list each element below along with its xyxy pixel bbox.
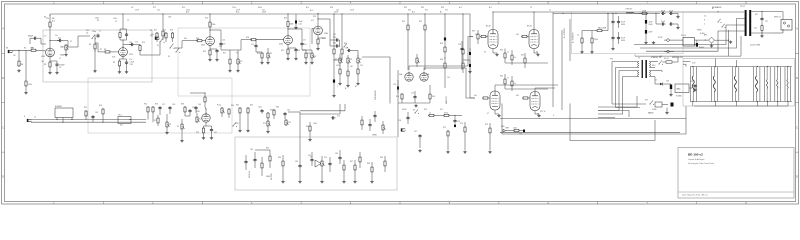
resistor R52 NFB <box>513 130 514 132</box>
switch SW11 impedance a <box>717 21 720 24</box>
svg-text:R74: R74 <box>485 124 488 126</box>
fuse F1 <box>666 61 672 63</box>
potentiometer P10 <box>196 116 198 117</box>
rectifier bridge diamond <box>709 37 715 43</box>
ground C32 <box>645 41 647 42</box>
wire OT bottom run <box>635 55 741 57</box>
ground R51 <box>591 51 593 52</box>
wire sw cluster <box>148 54 160 56</box>
ground C20 <box>333 94 335 95</box>
svg-text:22n: 22n <box>223 44 226 46</box>
resistor R77 led feed <box>162 30 164 31</box>
svg-text:R75 1k: R75 1k <box>540 111 546 113</box>
ground C34 <box>694 89 696 90</box>
svg-text:C9: C9 <box>127 20 129 22</box>
ground C47 <box>419 149 421 150</box>
svg-text:R69: R69 <box>380 157 383 159</box>
resistor R71 220k <box>443 114 444 116</box>
svg-text:RETURN: RETURN <box>271 173 273 180</box>
switch SW10 <box>414 112 417 115</box>
svg-text:47k: 47k <box>311 20 314 22</box>
ground R67 <box>354 180 356 181</box>
ground P13 <box>321 180 323 181</box>
wire V1A plate up <box>49 41 51 47</box>
ground C15 <box>295 26 297 27</box>
capacitor C17 coupling <box>301 42 303 44</box>
resistor R72 <box>447 130 449 131</box>
svg-text:5k6: 5k6 <box>474 95 477 97</box>
cathode V3A <box>317 35 319 38</box>
relay RL1 box <box>118 117 131 124</box>
ground C10 <box>126 71 128 72</box>
heater feed wires <box>714 59 716 67</box>
capacitor C33b string <box>669 12 671 14</box>
svg-text:R15: R15 <box>182 7 185 9</box>
ground gain cluster <box>94 70 96 71</box>
triode V2A <box>206 37 215 46</box>
svg-text:680pF: 680pF <box>28 36 34 38</box>
svg-text:22uF: 22uF <box>350 9 354 11</box>
triode V1A <box>46 48 55 57</box>
capacitor C19 <box>454 119 456 121</box>
loop send jack J3 <box>27 119 29 122</box>
wire c13 down <box>220 47 222 51</box>
svg-text:SW: SW <box>344 43 347 45</box>
svg-text:47k: 47k <box>445 9 448 11</box>
svg-text:R18: R18 <box>246 37 249 39</box>
wire V2A plate up <box>209 30 211 35</box>
ground bridge <box>711 43 713 44</box>
wire NFB <box>506 130 513 132</box>
ground PI <box>415 104 417 105</box>
svg-text:47k: 47k <box>46 18 49 20</box>
node grid V1A <box>18 50 19 51</box>
svg-text:10k: 10k <box>262 9 265 11</box>
svg-text:R8: R8 <box>113 62 115 64</box>
svg-text:R22: R22 <box>307 53 310 55</box>
wire OT secondary bottom <box>751 32 770 34</box>
svg-text:47uF: 47uF <box>661 21 665 23</box>
capacitor C31a filter <box>612 36 614 38</box>
svg-text:V7: V7 <box>487 113 489 115</box>
svg-text:V8: V8 <box>537 114 539 116</box>
svg-text:10k: 10k <box>447 77 450 79</box>
svg-text:B+3: B+3 <box>236 12 239 14</box>
svg-text:R73: R73 <box>460 123 463 125</box>
svg-text:R62: R62 <box>250 105 253 107</box>
triode V4B PI <box>420 73 428 81</box>
wire loop box <box>56 118 58 120</box>
wire V3A plate <box>317 19 319 25</box>
heater bottom stubs <box>714 102 716 107</box>
svg-text:J3: J3 <box>34 117 36 119</box>
heater V8 <box>753 67 755 102</box>
ground V8 cathode <box>538 114 540 115</box>
svg-text:R7: R7 <box>104 49 106 51</box>
ground R66 <box>282 180 284 181</box>
svg-text:CH3 4H: CH3 4H <box>626 9 633 11</box>
resistor R33 PI tail <box>401 93 403 94</box>
capacitor C10 1.5uF <box>126 61 128 63</box>
resistor R76 chain2 <box>462 62 464 63</box>
svg-text:47uF: 47uF <box>649 32 653 34</box>
ground V6 cathode <box>537 53 539 54</box>
switch SW7 HT <box>658 63 661 66</box>
resistor R42 <box>524 57 526 58</box>
ground C44 <box>299 180 301 181</box>
svg-text:P3: P3 <box>270 53 272 55</box>
capacitor C31b filter <box>618 36 620 38</box>
grid network V3B <box>221 107 223 108</box>
svg-text:R35: R35 <box>440 43 443 45</box>
svg-text:Date: May 5th, 2014 - BE 1.0: Date: May 5th, 2014 - BE 1.0 <box>682 193 709 196</box>
svg-text:J2: J2 <box>779 17 781 19</box>
svg-text:1k: 1k <box>514 83 516 85</box>
svg-text:P11: P11 <box>263 123 266 125</box>
svg-text:R72: R72 <box>443 127 446 129</box>
svg-text:R66: R66 <box>278 157 281 159</box>
resistor R10 tail <box>139 45 141 46</box>
ground C49 <box>469 70 471 71</box>
svg-text:R71: R71 <box>440 109 443 111</box>
wire to V1B grid <box>97 43 99 52</box>
NFB arrow <box>503 129 506 132</box>
long wire x562 <box>561 30 563 110</box>
svg-text:1k: 1k <box>514 57 516 59</box>
ground mains <box>666 111 668 112</box>
svg-text:R21: R21 <box>281 50 284 52</box>
svg-text:R77: R77 <box>153 7 156 9</box>
svg-text:B+2: B+2 <box>459 7 462 9</box>
capacitor C34a string <box>661 23 663 25</box>
ground P8 <box>166 131 168 132</box>
svg-text:RL1: RL1 <box>119 115 122 117</box>
capacitor C14 <box>255 44 257 46</box>
capacitor C27 zobel <box>761 17 763 19</box>
resistor R29 tone <box>347 70 349 71</box>
svg-text:C39: C39 <box>192 107 195 109</box>
svg-text:100k: 100k <box>113 18 117 20</box>
wire ch-switch feed <box>162 14 164 30</box>
triode V1B <box>119 48 128 57</box>
svg-text:C16: C16 <box>297 50 300 52</box>
bus wire W1 <box>300 110 345 112</box>
ground V2B cathode <box>287 57 289 58</box>
wire OT feed 2 <box>640 19 745 49</box>
ground P2 <box>237 69 239 70</box>
bus wire rails mid <box>500 117 686 119</box>
resistor R73 <box>464 126 466 127</box>
svg-text:R34: R34 <box>432 96 435 98</box>
electrolytic C15 <box>295 21 297 24</box>
ground C34 string <box>677 26 679 27</box>
ground V7 cathode <box>498 114 500 115</box>
svg-text:BR1: BR1 <box>704 34 707 36</box>
potentiometer P15 PI bias <box>416 57 418 58</box>
bias network wires <box>654 77 656 85</box>
wire bright to grid <box>94 35 96 44</box>
svg-text:C12: C12 <box>219 46 222 48</box>
wire R7 to V1B <box>111 51 119 53</box>
resistor R74 <box>489 127 491 128</box>
resistor R60 <box>228 108 230 109</box>
svg-text:B+1: B+1 <box>412 12 415 14</box>
svg-text:C21: C21 <box>333 37 336 39</box>
potentiometer P11 <box>267 120 269 121</box>
svg-text:R55: R55 <box>144 103 147 105</box>
capacitor C26 <box>461 47 463 49</box>
diode D1 bias <box>660 83 663 86</box>
triode V4A PI <box>405 73 413 81</box>
wire T1 secondary leads <box>649 61 658 63</box>
svg-text:V5: V5 <box>484 52 486 54</box>
svg-text:100k: 100k <box>290 24 294 26</box>
ground mid relay row <box>653 41 655 42</box>
ground R50 <box>581 51 583 52</box>
svg-text:R26: R26 <box>330 7 333 9</box>
node V2A out <box>209 29 210 30</box>
triode V2B <box>284 36 293 45</box>
resistor R7 grid stopper V1B <box>104 51 105 53</box>
resistor R2 68k grid stopper <box>30 49 31 51</box>
wire sec2 <box>658 70 662 72</box>
svg-text:C11: C11 <box>135 42 138 44</box>
wire grid V2B <box>257 39 284 41</box>
stage box channel switch <box>178 28 310 96</box>
svg-text:R4: R4 <box>44 17 46 19</box>
bus wire B2 <box>570 104 655 141</box>
svg-text:R57: R57 <box>154 120 157 122</box>
svg-text:SW: SW <box>86 30 89 32</box>
svg-text:R63: R63 <box>276 107 279 109</box>
wire mv <box>444 75 446 88</box>
wire psu corner d <box>598 84 623 114</box>
resistor R61 <box>239 107 241 108</box>
bus wire W2 <box>300 113 340 115</box>
svg-text:R19: R19 <box>257 53 260 55</box>
wire plate to coupling <box>50 40 58 42</box>
svg-text:SW10: SW10 <box>402 109 407 111</box>
svg-text:P7: P7 <box>360 59 362 61</box>
resistor R35 NFB <box>444 46 446 47</box>
svg-text:R32: R32 <box>421 7 424 9</box>
svg-text:T1: T1 <box>634 55 636 57</box>
svg-text:C44: C44 <box>295 161 298 163</box>
potentiometer P7 mid <box>357 57 359 58</box>
svg-text:C26: C26 <box>458 44 461 46</box>
ground P4 <box>311 61 313 62</box>
svg-text:P10: P10 <box>199 119 202 121</box>
cathode V1B wires <box>122 55 124 59</box>
svg-text:68k: 68k <box>31 47 34 49</box>
svg-text:R36: R36 <box>440 59 443 61</box>
svg-text:R11: R11 <box>154 30 157 32</box>
capacitor C34 bias <box>694 84 696 86</box>
pilot LED A <box>667 39 670 42</box>
potentiometer P8 send level <box>166 121 168 122</box>
svg-text:R64: R64 <box>306 126 309 128</box>
ground C33 string <box>677 15 679 16</box>
svg-text:C8: C8 <box>131 7 133 9</box>
resistor R24 cathode <box>317 38 319 39</box>
ground R17 <box>229 69 231 70</box>
heater bank box <box>683 59 795 107</box>
svg-text:22uF: 22uF <box>236 9 240 11</box>
bus wire B3 <box>598 96 637 107</box>
electrolytic C24 PI <box>397 87 399 90</box>
svg-text:C10: C10 <box>130 64 133 66</box>
capacitor C21 treble <box>335 39 337 41</box>
resistor R58 <box>184 106 186 107</box>
wire gain wiper right <box>68 46 78 48</box>
wire rail to caps <box>634 12 641 14</box>
resistor R82 shunt <box>25 80 27 81</box>
resistor R36 NFB2 <box>444 62 446 63</box>
wire master down <box>397 104 399 137</box>
svg-text:22n: 22n <box>58 38 61 40</box>
svg-text:R60: R60 <box>231 105 234 107</box>
svg-text:R40: R40 <box>500 50 503 52</box>
wire grid V3A <box>312 27 314 29</box>
svg-text:P8: P8 <box>169 124 171 126</box>
svg-text:220k: 220k <box>186 9 190 11</box>
potentiometer P6 bass <box>347 57 349 58</box>
svg-text:R16: R16 <box>203 51 206 53</box>
capacitor C36 loop <box>92 115 94 117</box>
resistor R66 <box>282 160 284 161</box>
relay RL2 <box>683 38 694 47</box>
svg-text:RL1: RL1 <box>120 125 123 127</box>
svg-text:250k: 250k <box>336 65 340 67</box>
svg-text:C22: C22 <box>333 43 336 45</box>
resistor R8 cathode V1B <box>119 60 121 61</box>
svg-text:R45: R45 <box>500 76 503 78</box>
svg-text:4-8-16 OHM: 4-8-16 OHM <box>750 45 760 47</box>
wire to V2B <box>240 40 242 50</box>
svg-text:220k: 220k <box>594 39 598 41</box>
capacitor C5 bright <box>97 34 99 36</box>
ground zobel <box>761 33 763 35</box>
wire OT feed 3 <box>634 25 745 45</box>
ground R82 <box>25 91 27 92</box>
svg-text:R70: R70 <box>424 109 427 111</box>
switch SW2 channel a <box>159 41 162 44</box>
svg-text:R13: R13 <box>170 30 173 32</box>
wire plate rail left <box>190 92 205 94</box>
wire ch sel <box>139 52 141 56</box>
electrolytic C50 <box>444 38 446 41</box>
wire OT feed 1 <box>646 31 745 51</box>
capacitor C52 <box>329 162 331 164</box>
wire lower screen <box>505 88 548 90</box>
wire B+ node V2B <box>287 14 289 21</box>
svg-text:FS1: FS1 <box>150 35 153 37</box>
ground relay row right <box>730 41 732 42</box>
wire T1 primary leads <box>612 61 639 63</box>
potentiometer GAIN <box>65 44 67 45</box>
capacitor C40 <box>195 106 197 108</box>
wire plates to OT <box>493 11 744 13</box>
switch SW5 tone <box>343 46 346 49</box>
svg-text:SW: SW <box>645 100 648 102</box>
svg-text:4.7n: 4.7n <box>337 116 340 118</box>
heater V1 <box>764 67 766 102</box>
potentiometer P13 <box>321 160 323 161</box>
capacitor C2 0.68uF <box>56 63 58 65</box>
wire input to grid <box>12 49 30 51</box>
bias pot box <box>675 84 689 93</box>
potentiometer P4 <box>311 52 313 53</box>
wire tone out down <box>362 57 390 104</box>
svg-text:C36: C36 <box>95 112 98 114</box>
resistor R52s SAG <box>596 30 597 32</box>
svg-text:R-BIAS: R-BIAS <box>676 95 683 98</box>
output transformer T2 primary bar <box>745 10 747 36</box>
jack J4 loop <box>401 128 403 131</box>
heater V5 <box>689 67 691 102</box>
capacitor C46 <box>339 156 341 158</box>
svg-text:P11g: P11g <box>217 105 221 107</box>
svg-text:C41: C41 <box>214 132 217 134</box>
long wire x553 <box>552 13 554 108</box>
diode D2 relay <box>696 43 698 47</box>
heater V3 <box>784 67 786 102</box>
svg-text:100k: 100k <box>513 128 517 130</box>
resistor R45 screen V7 <box>504 78 506 79</box>
svg-text:R6: R6 <box>89 44 91 46</box>
svg-text:R17: R17 <box>223 53 226 55</box>
ground R22 <box>305 61 307 62</box>
stage box fx send <box>88 78 232 133</box>
resistor R27 rail drop2 <box>341 48 343 49</box>
svg-text:100k: 100k <box>313 123 317 125</box>
resistor R59p plate V3B <box>204 96 206 97</box>
wire tone in <box>318 18 330 20</box>
svg-text:R53: R53 <box>84 107 87 109</box>
resistor R6 slope <box>94 43 96 44</box>
resistor R65 <box>269 155 271 156</box>
capacitor C34b string <box>669 23 671 25</box>
wire v7 plate run <box>494 85 496 91</box>
heater rail dots <box>692 66 693 67</box>
svg-text:C2: C2 <box>59 67 61 69</box>
resistor R81 <box>361 119 363 120</box>
svg-text:R68: R68 <box>367 163 370 165</box>
resistor R21 cathode V2B <box>287 48 289 49</box>
wire psu corner e <box>598 117 615 119</box>
svg-text:C35: C35 <box>519 134 522 136</box>
T1 secondary winding <box>649 62 650 68</box>
svg-text:R15: R15 <box>205 18 208 20</box>
capacitor C16 <box>295 48 297 50</box>
wire to V2A grid <box>174 47 182 49</box>
svg-text:R9: R9 <box>97 20 99 22</box>
cluster mix <box>261 109 263 111</box>
wire psu corner c <box>598 81 619 111</box>
svg-text:B+3: B+3 <box>306 7 309 9</box>
svg-text:P5: P5 <box>335 59 337 61</box>
svg-text:C23: C23 <box>345 48 348 50</box>
resistor R67 <box>354 164 356 165</box>
svg-text:1k: 1k <box>429 113 431 115</box>
svg-text:C43: C43 <box>250 149 253 151</box>
heater rail dots bottom <box>692 101 693 102</box>
resistor R22 <box>305 52 307 53</box>
svg-text:5k6: 5k6 <box>516 95 519 97</box>
wire master row <box>435 114 443 116</box>
svg-text:EL34: EL34 <box>486 26 490 28</box>
power transformer T1 core bar1 <box>642 60 643 78</box>
